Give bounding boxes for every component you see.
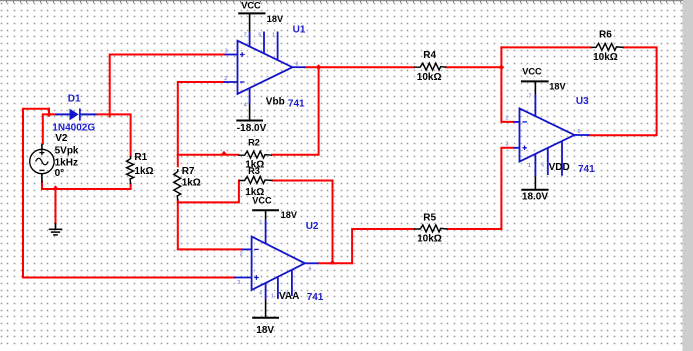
- junction diamond R4/U3 column: [499, 64, 505, 70]
- resistor R1 (vertical): [127, 156, 134, 184]
- svg-text:1kΩ: 1kΩ: [134, 166, 153, 177]
- svg-text:3: 3: [237, 280, 240, 286]
- resistor R6 (horizontal): [590, 43, 623, 50]
- svg-text:1: 1: [528, 163, 531, 169]
- svg-text:VDD: VDD: [549, 162, 570, 173]
- svg-text:R7: R7: [182, 166, 195, 177]
- resistor R4 (horizontal): [414, 63, 446, 70]
- svg-text:2: 2: [240, 251, 243, 257]
- top ruler bar: [0, 0, 683, 1]
- svg-text:R3: R3: [248, 166, 260, 176]
- source plus mark: [39, 152, 44, 154]
- svg-text:7: 7: [529, 94, 532, 100]
- svg-text:1: 1: [271, 294, 274, 300]
- wire far-left vertical: [23, 109, 49, 278]
- svg-text:10kΩ: 10kΩ: [593, 52, 618, 63]
- wire R6 right + feedback loop: [590, 47, 657, 135]
- ground: [49, 223, 63, 235]
- resistor R2 (horizontal): [238, 151, 272, 158]
- wire U3 column vertical: [501, 47, 513, 122]
- wire source top to diode anode: [43, 114, 56, 143]
- resistor R5 (horizontal): [414, 225, 447, 232]
- svg-text:1: 1: [272, 33, 275, 39]
- svg-text:VCC: VCC: [252, 196, 272, 206]
- svg-text:18.0V: 18.0V: [522, 191, 548, 202]
- wire riser to U1 pin3: [110, 55, 225, 117]
- wire R7 bottom to U2 pin2: [178, 201, 242, 250]
- wire R4 right to U3 column: [446, 66, 501, 68]
- svg-text:R1: R1: [134, 152, 147, 163]
- source bottom lead: [41, 174, 43, 183]
- power bar U2 VCC: [252, 210, 279, 220]
- svg-text:1N4002G: 1N4002G: [52, 122, 95, 133]
- source top lead: [41, 144, 43, 150]
- resistor R3 (horizontal): [239, 177, 273, 184]
- svg-text:R2: R2: [248, 138, 260, 148]
- svg-text:VCC: VCC: [522, 67, 542, 77]
- wire R2 row right: [272, 67, 318, 155]
- source sine symbol: [36, 158, 49, 165]
- svg-text:6: 6: [309, 267, 312, 273]
- svg-text:-18.0V: -18.0V: [237, 123, 267, 134]
- svg-text:10kΩ: 10kΩ: [417, 234, 442, 245]
- wire U2 output row: [319, 262, 353, 264]
- svg-text:R4: R4: [423, 50, 436, 61]
- svg-text:R6: R6: [599, 29, 612, 40]
- wire ground branch: [55, 189, 57, 223]
- wire jog into diode row: [48, 109, 50, 115]
- wire U3 pin3 column: [447, 148, 513, 229]
- svg-text:VAA: VAA: [279, 291, 299, 302]
- svg-text:6: 6: [578, 129, 581, 135]
- svg-text:VCC: VCC: [241, 0, 261, 10]
- junction diamond U1 out: [316, 64, 322, 70]
- power bar U1 VCC: [238, 13, 265, 31]
- wire diode cathode to R1 top: [97, 114, 131, 156]
- power bar U3 VCC: [521, 81, 549, 94]
- wire U2 pin3 row: [23, 277, 234, 279]
- source minus mark: [39, 169, 44, 171]
- svg-text:U1: U1: [293, 25, 306, 36]
- svg-text:4: 4: [244, 103, 247, 109]
- junction bump ground rail: [52, 185, 59, 190]
- svg-text:3: 3: [225, 49, 228, 55]
- wire bottom rail: [42, 182, 131, 189]
- wire R1 bottom: [130, 184, 132, 189]
- svg-text:18V: 18V: [256, 325, 274, 336]
- wire R5 row left: [352, 229, 414, 263]
- svg-text:5: 5: [258, 33, 261, 39]
- svg-text:18V: 18V: [281, 210, 298, 220]
- wire R3 row right: [273, 181, 333, 264]
- svg-text:3: 3: [506, 142, 509, 148]
- svg-text:0°: 0°: [55, 168, 65, 179]
- power bar U2 bottom: [252, 300, 279, 318]
- source body circle: [30, 149, 54, 173]
- svg-text:741: 741: [307, 292, 324, 303]
- svg-text:U3: U3: [576, 96, 589, 107]
- svg-text:7: 7: [244, 33, 247, 39]
- svg-text:741: 741: [288, 98, 305, 109]
- junction bump U2 out: [329, 260, 336, 265]
- svg-text:18V: 18V: [549, 81, 566, 91]
- svg-text:5: 5: [285, 292, 288, 298]
- svg-text:R5: R5: [423, 213, 436, 224]
- svg-text:D1: D1: [68, 94, 81, 105]
- svg-text:741: 741: [578, 164, 595, 175]
- power bar U3 bottom: [521, 176, 548, 190]
- svg-text:6: 6: [296, 62, 299, 68]
- svg-text:5Vpk: 5Vpk: [55, 145, 79, 156]
- right scrollbar band: [683, 0, 693, 351]
- svg-text:7: 7: [259, 221, 262, 227]
- svg-text:2: 2: [224, 76, 227, 82]
- wire U1 output row: [306, 66, 415, 68]
- power bar U1 -18V: [236, 104, 263, 121]
- svg-text:2: 2: [506, 116, 509, 122]
- svg-text:U2: U2: [306, 221, 319, 232]
- resistor R7 (vertical): [174, 169, 181, 201]
- svg-text:18V: 18V: [267, 14, 284, 24]
- svg-text:1kΩ: 1kΩ: [182, 178, 201, 189]
- svg-text:10kΩ: 10kΩ: [417, 72, 442, 83]
- wire R6 row: [501, 46, 590, 48]
- svg-text:5: 5: [541, 163, 544, 169]
- svg-text:Vbb: Vbb: [266, 96, 285, 107]
- source V2: [30, 144, 54, 183]
- svg-text:V2: V2: [55, 133, 68, 144]
- junction diamond diode row: [46, 112, 51, 117]
- svg-text:4: 4: [259, 291, 262, 297]
- wire U1 pin2 to left column: [178, 82, 224, 166]
- wire R2 row left: [178, 154, 239, 156]
- wire R3 left jog: [178, 181, 239, 203]
- junction bump R2 row: [220, 151, 227, 155]
